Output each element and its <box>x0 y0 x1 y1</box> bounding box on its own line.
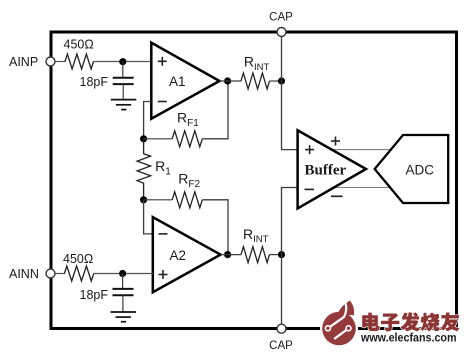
buffer output polarity minus <box>331 195 343 197</box>
node feedback F1 <box>140 135 147 142</box>
wire capacitor to ground (top) <box>122 84 124 99</box>
svg-text:CAP: CAP <box>269 11 293 23</box>
node A2 output <box>224 251 231 258</box>
resistor RINT (top) <box>241 73 270 89</box>
resistor RF2 <box>172 192 202 208</box>
wire 450 ohm to A2 noninverting input <box>94 273 153 275</box>
svg-text:18pF: 18pF <box>80 75 109 89</box>
buffer U1 <box>298 130 366 208</box>
resistor R1 <box>137 139 151 200</box>
svg-text:18pF: 18pF <box>80 288 109 302</box>
enclosure box <box>51 32 457 329</box>
wire buffer positive output to ADC <box>320 149 393 151</box>
watermark text dianzifashaoyou <box>362 313 459 332</box>
wire 450 ohm to A1 noninverting input <box>94 61 152 63</box>
capacitor 18pF (top) <box>113 78 134 84</box>
node A1 output <box>224 77 231 84</box>
op-amp A1 <box>151 43 219 119</box>
wire F1 node to resistor RF1 <box>144 138 173 140</box>
wire capacitor to ground (bottom) <box>122 295 124 312</box>
svg-text:AINP: AINP <box>9 55 38 69</box>
wire CAP line top to buffer positive input <box>282 37 298 150</box>
wire AINP terminal to 450 ohm resistor <box>55 61 66 63</box>
resistor RINT (bottom) <box>241 247 270 263</box>
A1 plus input sign <box>158 57 167 66</box>
svg-text:CAP: CAP <box>269 340 293 352</box>
svg-text:A2: A2 <box>170 248 187 263</box>
node CAP line top <box>278 77 285 84</box>
buffer minus input sign <box>305 188 315 190</box>
wire node to capacitor 18pF (top) <box>122 62 124 78</box>
terminal CAP (bottom) <box>277 324 286 333</box>
node AINN filter junction <box>119 270 126 277</box>
ground (bottom) <box>111 312 137 322</box>
resistor 450 ohm (top) <box>65 54 94 69</box>
terminal AINP <box>46 57 55 66</box>
watermark logo elecfans <box>320 299 358 348</box>
resistor 450 ohm (bottom) <box>64 266 93 281</box>
wire A1 output to RINT (top) <box>220 80 242 82</box>
svg-text:www.elecfans.com: www.elecfans.com <box>360 331 456 345</box>
terminal AINN <box>46 269 55 278</box>
svg-text:Buffer: Buffer <box>305 163 347 179</box>
wire A1 inverting input to feedback node <box>144 102 152 139</box>
adc block <box>375 135 449 203</box>
buffer output polarity plus <box>331 137 340 146</box>
wire AINN terminal to 450 ohm resistor <box>55 273 65 275</box>
A2 minus input sign <box>159 233 168 235</box>
wire RINT to CAP line (top) <box>270 80 282 82</box>
terminal CAP (top) <box>277 28 286 37</box>
svg-text:450Ω: 450Ω <box>64 38 94 52</box>
wire A2 output to RINT (bottom) <box>221 254 241 256</box>
resistor RF1 <box>172 131 202 147</box>
node feedback F2 <box>140 196 147 203</box>
wire buffer negative output to ADC <box>320 187 390 189</box>
node CAP line bottom <box>278 251 285 258</box>
op-amp A2 <box>153 217 221 292</box>
A2 plus input sign <box>159 270 168 279</box>
capacitor 18pF (bottom) <box>113 289 134 295</box>
svg-text:450Ω: 450Ω <box>63 252 93 266</box>
svg-text:A1: A1 <box>169 74 186 89</box>
ground (top) <box>111 100 137 110</box>
buffer plus input sign <box>305 145 314 154</box>
wire RF1 to A1 output <box>202 81 228 139</box>
node AINP filter junction <box>119 58 126 65</box>
wire node to capacitor 18pF (bottom) <box>122 274 124 289</box>
wire CAP line bottom to buffer negative input <box>282 188 298 325</box>
svg-text:ADC: ADC <box>406 163 435 178</box>
svg-text:AINN: AINN <box>9 267 39 281</box>
wire RINT to CAP line (bottom) <box>270 254 282 256</box>
wire RF2 to A2 output <box>202 200 228 255</box>
A1 minus input sign <box>158 101 167 103</box>
wire F2 node to A2 inverting input <box>144 200 153 234</box>
wire F2 node to resistor RF2 <box>144 199 173 201</box>
